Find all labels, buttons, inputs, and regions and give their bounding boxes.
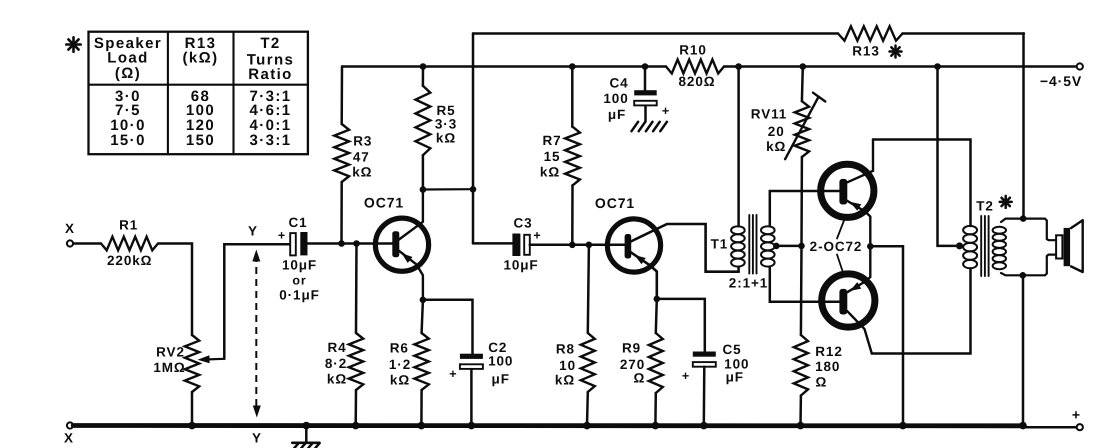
node T1 primary top junction — [735, 63, 742, 70]
svg-text:(kΩ): (kΩ) — [183, 50, 219, 67]
node bottom rail R6 — [418, 422, 426, 430]
wire emitters to bottom rail — [870, 246, 903, 425]
svg-text:0·1μF: 0·1μF — [279, 288, 320, 303]
svg-text:μF: μF — [608, 107, 626, 122]
svg-text:Ω: Ω — [634, 370, 646, 385]
svg-text:C4: C4 — [609, 76, 628, 91]
svg-text:3·3: 3·3 — [435, 117, 457, 132]
svg-text:1·2: 1·2 — [389, 357, 411, 372]
label Q1 OC71 — [364, 195, 404, 211]
node supply tap junction — [934, 63, 941, 70]
resistor R13 — [838, 26, 903, 58]
wire T2 secondary bottom to speaker node — [1001, 273, 1023, 275]
node R5 top junction — [420, 63, 427, 70]
transistor Q2 OC71 — [607, 219, 738, 299]
node bottom rail R9 — [652, 422, 660, 430]
label Y top — [248, 224, 258, 239]
svg-text:220kΩ: 220kΩ — [107, 253, 152, 268]
svg-text:Ratio: Ratio — [248, 66, 293, 83]
wire X to R1 — [73, 242, 101, 244]
node Q1 emitter junction — [420, 297, 427, 304]
svg-text:15: 15 — [544, 149, 561, 164]
terminal -4.5V — [1077, 63, 1083, 69]
node bottom rail C5 — [700, 422, 708, 430]
svg-text:R4: R4 — [327, 340, 346, 355]
wire top feedback rail left segment — [473, 32, 838, 34]
node C4 junction — [642, 63, 649, 70]
wire R1 to RV2 top — [158, 244, 192, 336]
preset RV11 — [751, 67, 825, 246]
svg-text:10: 10 — [559, 358, 576, 373]
svg-text:(Ω): (Ω) — [115, 65, 141, 82]
RV2 wiper arrow — [198, 355, 225, 363]
svg-text:100: 100 — [488, 354, 513, 369]
svg-text:Ω: Ω — [816, 374, 828, 389]
svg-text:R7: R7 — [542, 133, 561, 148]
svg-text:kΩ: kΩ — [327, 372, 347, 387]
wire C5 to bottom rail — [703, 367, 706, 426]
transformer T1 primary winding — [731, 226, 745, 266]
transistor Q1 OC71 — [375, 190, 428, 300]
node bottom rail speaker — [1019, 422, 1027, 430]
node R7 bottom junction — [569, 242, 576, 249]
svg-text:or: or — [292, 274, 306, 288]
svg-text:RV11: RV11 — [751, 107, 787, 122]
svg-text:X: X — [65, 221, 75, 236]
T2 asterisk — [1000, 196, 1012, 208]
svg-text:+: + — [278, 229, 286, 243]
T2 core — [981, 216, 988, 276]
node emitters junction — [867, 243, 874, 250]
label -4.5V — [1040, 73, 1082, 89]
wire C2 to bottom rail — [470, 369, 473, 425]
wire Q4 collector to T2 primary bottom — [872, 269, 971, 354]
svg-text:R12: R12 — [815, 344, 842, 359]
node feedback junction — [470, 186, 477, 193]
resistor R5 — [416, 67, 458, 190]
svg-text:R6: R6 — [390, 341, 409, 356]
wire bottom rail thin right — [1023, 426, 1077, 429]
wire Q1 emitter to C2 — [423, 300, 473, 354]
node R8 top junction — [586, 242, 593, 249]
capacitor C5 — [682, 342, 750, 385]
svg-text:2-OC72: 2-OC72 — [810, 239, 863, 254]
svg-text:kΩ: kΩ — [352, 165, 372, 180]
svg-text:C3: C3 — [513, 216, 532, 231]
capacitor C2 — [449, 340, 513, 387]
wire wiper to C1 — [224, 244, 290, 359]
wire T1 primary bottom — [737, 267, 740, 272]
node T2 centre tap — [956, 242, 963, 249]
svg-text:+: + — [682, 369, 690, 383]
wire -4.5V rail right segment — [724, 65, 1077, 67]
label T1 — [711, 237, 729, 252]
svg-text:μF: μF — [726, 370, 744, 385]
wire C3 to Q2 base — [530, 244, 625, 247]
svg-text:Y: Y — [252, 431, 262, 446]
svg-text:20: 20 — [768, 124, 785, 139]
transformer T2 primary winding — [963, 226, 977, 268]
node bottom rail ground — [303, 422, 311, 430]
svg-text:+: + — [1072, 407, 1081, 423]
svg-text:150: 150 — [186, 132, 215, 149]
wire speaker loop bottom — [1023, 255, 1056, 276]
node bias junction — [798, 243, 805, 250]
node speaker top junction — [1020, 215, 1027, 222]
resistor R6 — [389, 300, 429, 426]
resistor R10 — [666, 43, 724, 90]
transformer T1 secondary winding — [761, 226, 775, 266]
svg-text:2:1+1: 2:1+1 — [729, 276, 768, 291]
capacitor C4 — [603, 67, 670, 123]
pointer lines to OC72 pair — [837, 221, 844, 272]
resistor R3 — [334, 67, 372, 244]
svg-text:T2: T2 — [260, 35, 280, 52]
resistor R9 — [620, 299, 663, 426]
svg-text:kΩ: kΩ — [766, 139, 786, 154]
wire speaker node to bottom rail — [1022, 275, 1025, 425]
svg-text:R13: R13 — [852, 44, 879, 59]
svg-text:OC71: OC71 — [364, 195, 404, 211]
wire feedback drop to Q1 collector node — [473, 34, 513, 244]
svg-text:C5: C5 — [722, 342, 741, 357]
node T1 centre tap — [773, 243, 780, 250]
node bottom rail RV2 — [188, 422, 196, 430]
wire bottom rail thick — [73, 423, 1023, 428]
transistor Q3 OC72 upper — [821, 140, 874, 247]
resistor R8 — [555, 245, 595, 426]
node Q2 emitter junction — [654, 296, 661, 303]
svg-text:kΩ: kΩ — [436, 131, 456, 146]
svg-text:R8: R8 — [556, 341, 575, 356]
svg-text:kΩ: kΩ — [540, 165, 560, 180]
resistor R7 — [540, 67, 580, 245]
wire -4.5V rail left segment — [342, 65, 666, 67]
node bottom rail R12 — [797, 422, 805, 430]
svg-text:47: 47 — [353, 150, 370, 165]
svg-text:10μF: 10μF — [282, 258, 317, 273]
ground on bottom rail — [292, 427, 319, 448]
node bottom rail emitters — [899, 422, 907, 430]
label 2-OC72 — [810, 239, 863, 254]
table asterisk — [66, 37, 80, 51]
wire T1 secondary bottom to Q4 base — [770, 267, 840, 302]
svg-text:10μF: 10μF — [503, 258, 538, 273]
wire RV2 to bottom rail — [191, 392, 194, 426]
T1 core — [749, 215, 756, 274]
label Q2 OC71 — [595, 195, 635, 211]
resistor R4 — [325, 244, 363, 426]
svg-text:3·3:1: 3·3:1 — [249, 132, 291, 149]
node bottom rail R4 — [352, 422, 360, 430]
wire rail to T1 primary — [737, 67, 740, 227]
transistor Q4 OC72 lower — [822, 246, 875, 353]
wire T1 tap to bias node — [776, 245, 801, 248]
transformer T2 secondary winding — [993, 227, 1006, 270]
node speaker bottom junction — [1020, 272, 1027, 279]
capacitor C1 — [278, 215, 320, 303]
node R3 bottom junction — [338, 240, 345, 247]
svg-text:+: + — [533, 229, 541, 243]
wire Q2 emitter to C5 — [657, 299, 705, 352]
svg-text:μF: μF — [492, 372, 510, 387]
svg-text:180: 180 — [815, 359, 840, 374]
table of speaker load vs R13 and T2 turns ratio — [89, 32, 308, 155]
wire top rail right segment — [903, 32, 1025, 34]
wire supply to T2 centre tap — [938, 67, 960, 246]
label Y bottom — [252, 431, 262, 446]
svg-text:R9: R9 — [622, 341, 641, 356]
wire R5 bottom to feedback drop — [423, 188, 473, 191]
svg-text:T2: T2 — [976, 199, 994, 214]
wire T2 secondary top to speaker node — [1001, 219, 1023, 222]
svg-text:+: + — [449, 367, 457, 381]
svg-text:OC71: OC71 — [595, 195, 635, 211]
svg-text:−4·5V: −4·5V — [1040, 73, 1082, 89]
terminal + output — [1072, 407, 1083, 431]
svg-text:R10: R10 — [679, 43, 706, 58]
resistor R12 — [794, 246, 843, 426]
svg-text:15·0: 15·0 — [110, 132, 146, 149]
potentiometer RV2 — [153, 335, 199, 392]
node RV11 top junction — [800, 63, 807, 70]
svg-text:+: + — [662, 104, 670, 118]
svg-text:820Ω: 820Ω — [679, 74, 716, 89]
label T1 ratio — [729, 276, 768, 291]
wire T1 secondary top to Q3 base — [770, 191, 840, 226]
svg-text:kΩ: kΩ — [390, 373, 410, 388]
terminal X bottom — [64, 422, 74, 445]
svg-text:1MΩ: 1MΩ — [153, 360, 185, 375]
svg-text:R1: R1 — [119, 218, 138, 233]
node bottom rail C2 — [468, 422, 476, 430]
wire R13 right drop to speaker node — [1022, 34, 1025, 219]
svg-text:100: 100 — [603, 91, 628, 106]
label T2 — [976, 199, 994, 214]
wire speaker loop top — [1023, 219, 1056, 241]
node Q1 collector junction — [420, 186, 427, 193]
node bottom rail R8 — [583, 422, 591, 430]
wire Q3 collector to T2 primary top — [873, 140, 971, 227]
svg-text:8·2: 8·2 — [325, 356, 347, 371]
R13 asterisk — [890, 46, 902, 58]
svg-text:kΩ: kΩ — [555, 373, 575, 388]
svg-text:Y: Y — [248, 224, 258, 239]
terminal X top — [65, 221, 75, 247]
wire C1 to Q1 base — [308, 242, 393, 245]
svg-text:RV2: RV2 — [156, 345, 185, 360]
loudspeaker — [1056, 220, 1083, 272]
svg-text:X: X — [64, 431, 74, 446]
ground below C4 — [632, 106, 667, 131]
resistor R1 — [101, 218, 158, 269]
svg-text:R3: R3 — [353, 134, 372, 149]
dashed cut line Y-Y — [252, 250, 260, 418]
node R7 top junction — [569, 63, 576, 70]
capacitor C3 — [503, 216, 541, 273]
node R4 top junction — [353, 240, 360, 247]
svg-text:C1: C1 — [288, 215, 307, 230]
svg-text:T1: T1 — [711, 237, 729, 252]
